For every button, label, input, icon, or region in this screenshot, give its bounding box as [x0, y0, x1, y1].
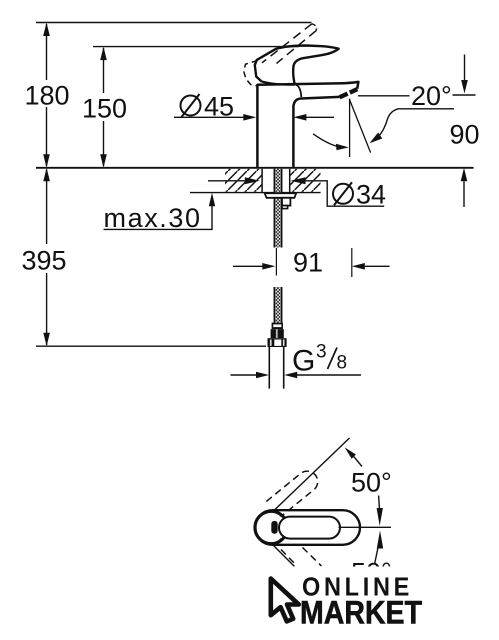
dimension 90: bottom arrow up	[461, 168, 468, 182]
dimension 180 vertical line	[46, 24, 48, 166]
svg-text:91: 91	[293, 248, 323, 278]
svg-text:34: 34	[356, 180, 386, 210]
logo white box	[256, 567, 452, 640]
leader of Ø34 label	[303, 181, 384, 206]
wire: top reference line of 150 dim	[93, 46, 299, 48]
spout root curve	[296, 85, 301, 97]
top view inner stadium	[279, 517, 340, 539]
leader arc of 20° to stream line	[375, 109, 455, 141]
50° arrow tail	[354, 457, 362, 467]
dashed raised handle line A	[262, 24, 312, 63]
leader underline of max.30	[104, 206, 213, 229]
top view dashed rotated handle	[266, 471, 317, 517]
counter bottom line	[190, 192, 321, 194]
svg-text:G: G	[292, 345, 315, 378]
dimension 90: top arrow down	[464, 55, 466, 82]
fixing block right	[282, 198, 290, 206]
arrow up 395	[43, 168, 50, 182]
wire: spout height line from aerator	[358, 95, 410, 97]
lever handle outline	[255, 46, 339, 85]
label Ø45 diameter symbol	[181, 94, 201, 117]
arrow left at body right edge (Ø45)	[306, 116, 334, 118]
aerator slots	[340, 89, 358, 97]
svg-text:150: 150	[82, 94, 127, 124]
svg-text:MARKET: MARKET	[300, 595, 422, 631]
threaded shank braid upper	[274, 169, 281, 248]
arrow up 180	[43, 23, 50, 37]
lever end black bar	[271, 521, 277, 534]
dimension Ø34 arrows	[208, 180, 247, 182]
hole edge left	[261, 169, 263, 193]
swivel arc arrow	[313, 134, 343, 148]
centerline	[339, 526, 392, 528]
water stream 20° slanted line	[349, 99, 370, 153]
hose end mid section	[271, 329, 284, 338]
hatch left block	[225, 169, 262, 192]
svg-text:20°: 20°	[411, 81, 452, 111]
water stream vertical line	[349, 99, 351, 157]
svg-text:3: 3	[316, 342, 327, 363]
converging arrow upper	[378, 496, 381, 509]
hinge dots	[279, 514, 282, 517]
svg-text:395: 395	[21, 246, 66, 276]
tick line for 91 at stream axis	[351, 248, 353, 277]
dimension 150 vertical line	[103, 48, 105, 166]
dimension 395 vertical line	[46, 170, 48, 346]
arrow down 395	[43, 333, 50, 347]
svg-text:50°: 50°	[351, 468, 392, 498]
dashed raised knob outline	[244, 61, 258, 86]
svg-text:90: 90	[449, 120, 479, 150]
label Ø34 diameter symbol	[333, 182, 353, 205]
tick at spout height	[453, 94, 476, 96]
top view body circle	[255, 511, 287, 543]
arrow down 180	[43, 154, 50, 168]
top view: 50° slanted line	[275, 438, 350, 510]
G3/8 pipe left line	[268, 347, 270, 389]
logo cursor arrow	[271, 579, 299, 622]
mounting flange	[265, 193, 297, 198]
dimension 91 right arrow	[352, 263, 365, 270]
hose break centerline	[275, 248, 277, 276]
hatch right block	[291, 169, 321, 192]
wire: bottom reference line of 395 dim	[36, 345, 266, 347]
solid 50° mirrored line below	[273, 545, 295, 567]
svg-text:max.30: max.30	[104, 203, 202, 233]
counter top line	[36, 167, 474, 169]
dashed raised handle tip cap	[312, 24, 317, 31]
svg-text:8: 8	[337, 353, 348, 374]
leader line of Ø45 with arrow to body left edge	[174, 116, 245, 118]
dimension 91 left arrow	[233, 265, 264, 267]
svg-text:180: 180	[24, 81, 69, 111]
faucet body outline	[257, 82, 358, 168]
wire: top reference line of 180 dim	[36, 22, 312, 24]
arrow up 150	[100, 47, 107, 61]
faucet spout underside	[293, 97, 339, 168]
arrow down 150	[100, 154, 107, 168]
top view outer stadium	[255, 510, 360, 545]
50° arrowhead on line	[345, 447, 356, 458]
dashed mirrored handle lines	[281, 550, 297, 566]
arrow up to counter bottom (max.30)	[209, 193, 215, 207]
connection nut	[268, 338, 287, 347]
lever bottom / cartridge dome	[262, 82, 295, 85]
hose end collar	[272, 323, 283, 330]
dashed raised handle line B	[277, 31, 317, 64]
threaded hose braid lower	[274, 287, 281, 323]
converging arrow lower	[377, 531, 383, 549]
G3/8 pipe right line	[283, 347, 285, 389]
fixing block step	[282, 206, 288, 209]
hole edge right	[289, 169, 291, 193]
dimension G3/8 arrows	[231, 374, 257, 376]
